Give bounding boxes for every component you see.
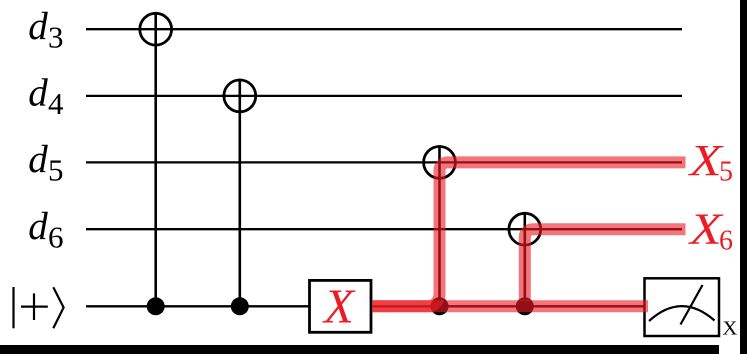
svg-text:4: 4 — [48, 86, 64, 121]
CNOT 3: control wire — [438, 145, 441, 306]
wire d3 — [86, 28, 682, 30]
measurement arc — [649, 306, 715, 321]
CNOT 3: target on d5 — [424, 147, 456, 179]
CNOT 2: control wire — [239, 79, 242, 307]
svg-text:6: 6 — [48, 219, 64, 254]
wire ancilla |+> — [86, 305, 645, 307]
measurement box — [645, 278, 720, 336]
bottom black bar — [0, 345, 719, 354]
red highlight path B: X gate to d5 / X5 — [372, 162, 686, 306]
svg-text:5: 5 — [719, 157, 733, 188]
CNOT 1: target on d3 — [140, 13, 172, 45]
svg-text:d: d — [28, 205, 48, 248]
CNOT 1: control dot on ancilla — [147, 297, 165, 315]
svg-text:d: d — [28, 138, 48, 181]
CNOT 2: target on d4 — [224, 80, 256, 112]
wire d4 — [86, 95, 682, 97]
svg-text:6: 6 — [719, 226, 733, 257]
svg-text:X: X — [723, 317, 738, 339]
red highlight path C: control on ancilla to d6 / X6 — [525, 229, 686, 301]
label |+> ket — [14, 287, 64, 328]
CNOT 4: control wire — [523, 212, 526, 306]
wire d5 — [86, 161, 682, 163]
CNOT 1: control wire — [154, 12, 157, 306]
measurement needle — [681, 285, 703, 325]
wire d6 — [86, 228, 682, 230]
CNOT 4: control dot on ancilla — [516, 297, 534, 315]
svg-text:d: d — [28, 72, 48, 115]
red highlight path A: ancilla wire X gate to measurement — [372, 300, 648, 312]
right black bar — [740, 0, 747, 354]
CNOT 3: control dot on ancilla — [431, 297, 449, 315]
svg-text:5: 5 — [48, 153, 64, 188]
svg-text:3: 3 — [48, 19, 64, 54]
svg-text:X: X — [322, 279, 356, 334]
svg-text:d: d — [28, 5, 48, 48]
CNOT 4: target on d6 — [509, 213, 541, 245]
X gate box — [310, 280, 372, 332]
CNOT 2: control dot on ancilla — [231, 297, 249, 315]
